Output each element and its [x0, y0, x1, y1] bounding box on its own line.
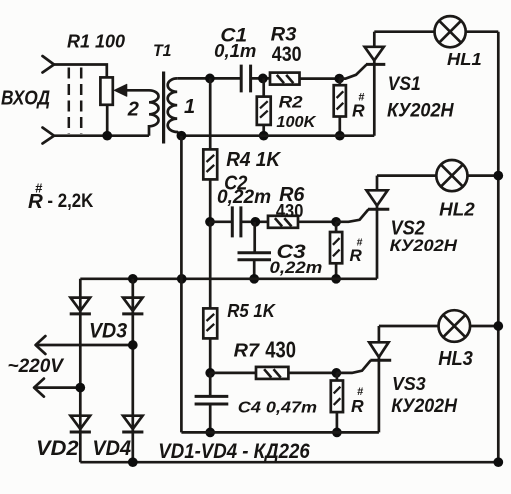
input jack pin top: [43, 56, 55, 73]
svg-text:VD4: VD4: [92, 437, 131, 460]
wire VS1 anode to HL1: [374, 30, 434, 33]
resistor R7 body: [256, 367, 288, 379]
resistor R3 body: [270, 73, 300, 85]
svg-text:VS1: VS1: [388, 74, 421, 95]
svg-text:#: #: [358, 92, 365, 104]
resistor R5 body: [203, 308, 217, 338]
thyristor VS3 anode lead: [378, 326, 381, 342]
AC line 2 arrowhead: [34, 379, 44, 397]
svg-text:430: 430: [272, 43, 302, 66]
wire node B C2 left segment: [210, 220, 232, 223]
svg-text:R2: R2: [279, 92, 304, 111]
wire bottom rail: [80, 461, 498, 464]
junction node A / R4: [205, 74, 215, 84]
lamp HL2: [436, 160, 467, 191]
wire R6 to VS2 gate node: [298, 220, 336, 223]
junction C3 bottom: [249, 274, 259, 284]
junction R# ch3 bottom: [332, 428, 342, 438]
svg-text:R: R: [352, 101, 365, 121]
wire cathode rail ch1: [181, 134, 374, 137]
svg-text:R: R: [351, 396, 364, 416]
svg-text:R: R: [350, 246, 363, 265]
svg-text:0,22m: 0,22m: [217, 187, 271, 208]
junction R# ch1 bottom: [335, 131, 345, 141]
svg-text:#: #: [357, 386, 364, 398]
resistor R1 body: [100, 77, 112, 104]
junction AC1 bridge right midpoint: [128, 340, 138, 350]
wire R3 to VS1 gate node: [300, 77, 340, 80]
wire R4 top lead: [209, 78, 212, 149]
resistor R# ch2 body: [330, 232, 342, 263]
wire R# ch2 bottom lead: [335, 263, 338, 279]
svg-text:VS3: VS3: [392, 374, 426, 394]
thyristor VS3 gate: [336, 360, 370, 373]
svg-text:T1: T1: [153, 41, 172, 60]
wire R7 to VS3 gate node: [288, 372, 336, 375]
svg-text:#: #: [357, 236, 363, 248]
diode VD3 top-right triangle: [123, 298, 143, 311]
wire R2 bottom lead: [262, 125, 265, 136]
svg-text:HL3: HL3: [438, 348, 473, 370]
wire C3 bottom lead: [253, 260, 256, 279]
junction bottom right corner: [493, 457, 503, 467]
diode VD2 bottom-left triangle: [71, 416, 91, 429]
svg-text:ВХОД: ВХОД: [1, 88, 50, 110]
svg-text:R7: R7: [234, 339, 261, 360]
svg-text:0,22m: 0,22m: [270, 259, 323, 277]
wire input top to R1: [54, 65, 107, 78]
thyristor VS2 gate: [336, 209, 368, 221]
wire input bottom to winding 2: [54, 134, 149, 137]
svg-text:КУ202Н: КУ202Н: [390, 236, 458, 255]
thyristor VS3 cathode bar: [370, 359, 391, 362]
diode VD1 cathode bar: [70, 312, 91, 315]
wire R5 top lead (from node B): [209, 222, 212, 309]
svg-text:R4 1K: R4 1K: [226, 149, 281, 171]
capacitor C2 plates: [232, 206, 241, 237]
svg-text:R1 100: R1 100: [67, 31, 126, 52]
svg-text:430: 430: [265, 336, 296, 362]
svg-text:VD2: VD2: [36, 437, 79, 460]
capacitor C1 plates: [241, 65, 250, 93]
junction rail2 bridge right: [128, 274, 138, 284]
input jack pin bottom: [43, 128, 55, 144]
wire VS2 anode to HL2: [377, 174, 436, 177]
resistor R6 body: [268, 216, 298, 228]
R1 wiper arrow: [120, 89, 149, 92]
thyristor VS2 cathode lead: [376, 206, 379, 279]
wire R# ch2 top lead: [335, 222, 338, 232]
resistor R2 body: [257, 97, 271, 125]
svg-text:HL2: HL2: [439, 199, 475, 220]
resistor R# ch3 body: [331, 381, 343, 413]
svg-text:1: 1: [184, 96, 195, 118]
svg-text:R5 1K: R5 1K: [227, 300, 276, 321]
junction VS2 gate / R#: [331, 217, 341, 227]
wire R# ch1 bottom lead: [338, 117, 341, 136]
wire R4 bottom lead: [209, 179, 212, 221]
svg-text:430: 430: [276, 201, 304, 221]
wire C2 to R6: [241, 220, 268, 223]
wire HL2 to right edge: [468, 174, 499, 177]
wire common cathode vertical x182: [180, 136, 183, 433]
svg-text:КУ202Н: КУ202Н: [391, 396, 458, 417]
lamp HL1: [435, 16, 466, 47]
svg-text:100K: 100K: [276, 114, 316, 131]
diode VD4 cathode bar: [122, 431, 143, 434]
diode VD1 top-left triangle: [71, 298, 91, 311]
lamp HL3: [439, 310, 471, 342]
thyristor VS1 cathode lead: [373, 60, 376, 135]
wire C4 bottom lead: [209, 404, 212, 432]
junction VS1 gate / R#: [334, 74, 344, 84]
wire cathode rail ch2: [80, 277, 377, 280]
wire C4 top lead: [209, 373, 212, 397]
thyristor VS1 cathode bar: [366, 63, 385, 66]
capacitor C4 plates: [195, 396, 229, 404]
svg-text:~220V: ~220V: [8, 356, 65, 377]
thyristor VS1 anode lead: [373, 32, 376, 47]
wire R# ch1 top lead: [338, 79, 341, 86]
resistor R# ch1 body: [334, 85, 346, 116]
wire R# ch3 bottom lead: [336, 412, 339, 432]
wire R# ch3 top lead: [336, 373, 339, 381]
svg-text:C4 0,47m: C4 0,47m: [238, 400, 317, 417]
junction R1 bottom: [102, 131, 112, 141]
thyristor VS3 cathode lead: [378, 357, 381, 432]
thyristor VS1 triangle: [365, 47, 384, 61]
junction bottom rail bridge right: [128, 457, 138, 467]
wire R2 top lead: [262, 78, 265, 96]
svg-text:#: #: [35, 181, 43, 196]
wire HL1 to right edge: [466, 30, 499, 33]
thyristor VS2 triangle: [367, 190, 388, 205]
thyristor VS2 anode lead: [376, 176, 379, 191]
junction HL2 right edge: [493, 171, 503, 181]
junction C1/R2/R3: [258, 74, 268, 84]
thyristor VS3 triangle: [369, 342, 388, 357]
diode VD2 cathode bar: [70, 431, 91, 434]
svg-text:VD1-VD4 - КД226: VD1-VD4 - КД226: [158, 440, 310, 463]
diode VD4 bottom-right triangle: [123, 416, 143, 429]
wire right edge: [497, 32, 500, 463]
svg-text:- 2,2K: - 2,2K: [47, 191, 93, 212]
junction T1 bottom: [177, 131, 187, 141]
wire HL3 to right edge: [470, 325, 498, 328]
junction AC2 bridge left midpoint: [75, 383, 85, 393]
junction node C / C4: [205, 368, 215, 378]
resistor R4 body: [203, 149, 217, 179]
svg-text:КУ202Н: КУ202Н: [387, 100, 454, 122]
junction HL3 right edge: [493, 321, 503, 331]
junction C2/R6/C3: [251, 217, 261, 227]
wire node C to R7: [210, 372, 256, 375]
wire VS3 anode to HL3: [379, 325, 439, 328]
junction VS3 gate / R#: [332, 368, 342, 378]
wire bridge right branch: [131, 279, 134, 462]
wire R5 bottom lead: [209, 338, 212, 373]
wire R1 bottom lead: [106, 105, 109, 136]
shielded cable dashed line 1: [68, 68, 71, 135]
junction R2 bottom: [259, 131, 269, 141]
thyristor VS2 cathode bar: [368, 208, 389, 211]
AC line 1 arrowhead: [36, 336, 46, 354]
wire AC line 1: [36, 344, 133, 347]
wire bridge left branch: [79, 279, 82, 462]
transformer T1 winding 1: [168, 78, 182, 135]
diode VD3 cathode bar: [122, 312, 143, 315]
junction rail2 x182: [177, 274, 187, 284]
shielded cable dashed line 2: [80, 68, 83, 135]
wire C3 top lead: [253, 222, 256, 253]
junction node B / C2 left: [205, 217, 215, 227]
wire cathode rail ch3: [181, 431, 379, 434]
svg-text:VD3: VD3: [89, 319, 127, 342]
wire AC line 2: [34, 386, 80, 389]
transformer T1 winding 2: [149, 90, 159, 135]
transformer T1 core: [162, 72, 165, 144]
junction R# ch2 bottom: [331, 274, 341, 284]
svg-text:2: 2: [127, 99, 139, 121]
svg-text:0,1m: 0,1m: [214, 40, 256, 61]
wire C1 to R3: [251, 77, 270, 80]
wire node A (T1 top to C1): [177, 77, 241, 80]
junction C4 bottom: [205, 428, 215, 438]
svg-text:HL1: HL1: [447, 49, 482, 69]
capacitor C3 plates: [238, 253, 272, 260]
thyristor VS1 gate: [339, 65, 366, 79]
